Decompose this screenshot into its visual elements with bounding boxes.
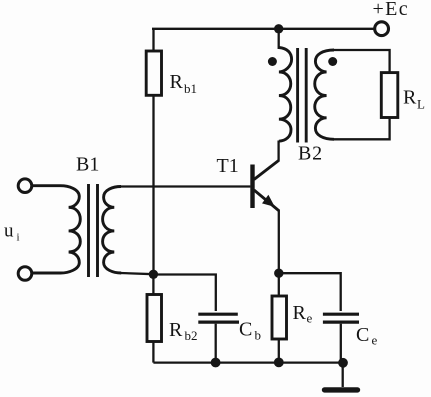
wire top supply rail — [152, 28, 374, 30]
polarity dot B2 primary — [268, 57, 277, 66]
svg-text:B1: B1 — [76, 154, 99, 176]
input terminal lower — [18, 267, 32, 281]
polarity dot B2 secondary — [328, 57, 337, 66]
svg-text:T1: T1 — [217, 155, 239, 177]
svg-text:C: C — [239, 319, 252, 341]
transformer B2 core — [298, 48, 307, 143]
wire Cb bottom lead — [215, 324, 217, 363]
wire B1 secondary bottom lead to node A — [121, 273, 154, 274]
capacitor Ce — [323, 314, 359, 322]
node Cb rail junction dot — [211, 358, 221, 368]
transformer B1 secondary winding — [103, 187, 122, 274]
wire ground stem — [342, 363, 344, 387]
svg-text:b2: b2 — [185, 328, 198, 343]
svg-text:u: u — [4, 221, 14, 242]
wire RL bottom lead to B2 secondary — [333, 118, 390, 140]
svg-text:+Ec: +Ec — [373, 0, 410, 20]
resistor RL — [381, 73, 398, 118]
svg-text:C: C — [356, 324, 369, 346]
transformer B1 core — [89, 184, 98, 277]
wire Ce bottom lead — [340, 324, 342, 363]
wire B2 secondary top lead to RL — [333, 50, 390, 73]
svg-text:B2: B2 — [298, 143, 323, 165]
capacitor Cb — [198, 314, 239, 322]
svg-text:e: e — [307, 311, 313, 326]
wire node A to Cb top — [153, 275, 215, 312]
wire Rb1 bottom lead to node A — [152, 95, 154, 274]
transformer B2 secondary winding — [315, 50, 334, 139]
svg-text:R: R — [293, 302, 307, 324]
resistor Rb2 — [147, 295, 162, 342]
wire emitter vertical to node B — [278, 210, 280, 274]
svg-text:L: L — [417, 97, 425, 112]
transformer B1 primary winding — [33, 186, 81, 273]
wire base: B1 secondary top lead to T1 base — [120, 185, 250, 187]
input terminal upper — [18, 179, 32, 193]
wire Rb2 bottom lead — [152, 342, 154, 363]
wire Rb2 top lead — [152, 275, 154, 295]
wire Re top lead — [278, 273, 280, 296]
transistor T1 collector lead — [254, 161, 279, 180]
svg-text:R: R — [169, 319, 183, 341]
node ground junction dot — [338, 358, 348, 368]
resistor Re — [272, 296, 287, 339]
transformer B2 primary winding — [279, 48, 292, 142]
node B junction dot — [274, 269, 283, 278]
transistor T1 emitter lead — [254, 190, 279, 211]
supply terminal +Ec — [375, 22, 389, 36]
ground symbol — [325, 387, 358, 392]
wire ground rail — [153, 361, 343, 363]
wire B2 primary top lead — [278, 29, 280, 49]
svg-text:e: e — [372, 333, 378, 348]
svg-text:b: b — [255, 328, 262, 343]
transistor T1 base bar — [250, 165, 254, 209]
svg-text:i: i — [17, 232, 20, 244]
svg-text:R: R — [403, 87, 417, 109]
transistor T1 emitter arrow — [262, 195, 275, 207]
wire collector vertical to B2 — [277, 141, 279, 162]
wire Rb1 top lead — [152, 29, 154, 51]
svg-text:R: R — [170, 71, 184, 93]
resistor Rb1 — [146, 51, 161, 95]
node junction dot top rail / B2 primary — [274, 24, 283, 33]
node Re rail junction dot — [274, 358, 284, 368]
svg-text:b1: b1 — [184, 81, 197, 96]
wire Re bottom lead — [278, 339, 280, 362]
node A junction dot — [149, 270, 158, 279]
wire node B to Ce top — [279, 273, 341, 311]
